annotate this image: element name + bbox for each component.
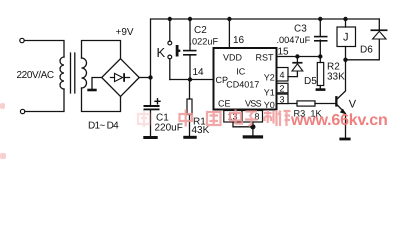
- svg-text:16: 16: [233, 35, 245, 46]
- svg-text:Y0: Y0: [264, 100, 275, 110]
- svg-text:J: J: [343, 32, 349, 44]
- svg-text:Y1: Y1: [264, 88, 275, 98]
- svg-text:15: 15: [278, 47, 290, 58]
- svg-text:C3: C3: [294, 24, 307, 35]
- svg-text:+9V: +9V: [116, 27, 134, 38]
- svg-text:RST: RST: [256, 53, 275, 63]
- svg-text:IC: IC: [236, 67, 246, 77]
- svg-text:D1~ D4: D1~ D4: [88, 121, 119, 132]
- svg-text:VSS: VSS: [245, 98, 262, 108]
- svg-text:D5: D5: [304, 76, 317, 87]
- svg-text:V: V: [349, 99, 357, 111]
- svg-text:CD4017: CD4017: [226, 80, 259, 90]
- svg-text:D6: D6: [360, 45, 373, 56]
- svg-text:4: 4: [280, 70, 285, 80]
- svg-text:3: 3: [280, 94, 285, 104]
- svg-text:43K: 43K: [192, 125, 210, 136]
- svg-text:CE: CE: [218, 98, 231, 108]
- svg-text:www.66kv.cn: www.66kv.cn: [290, 112, 388, 129]
- svg-text:Y2: Y2: [264, 73, 275, 83]
- svg-text:C2: C2: [194, 25, 207, 36]
- svg-text:K: K: [157, 45, 166, 60]
- svg-text:220uF: 220uF: [155, 123, 183, 134]
- svg-text:.0047uF: .0047uF: [277, 35, 311, 45]
- svg-text:VDD: VDD: [223, 53, 243, 63]
- svg-text:2: 2: [280, 84, 285, 94]
- svg-text:220V/AC: 220V/AC: [17, 70, 54, 81]
- svg-text:.022uF: .022uF: [190, 37, 219, 47]
- svg-text:33K: 33K: [327, 72, 345, 83]
- svg-text:14: 14: [193, 67, 205, 78]
